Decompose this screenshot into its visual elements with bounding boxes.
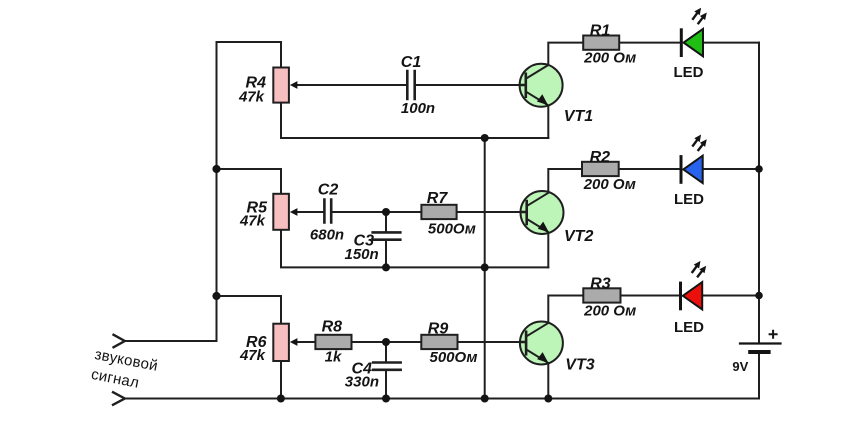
resistor R7 [421,190,475,237]
VT2 emitter arrow [538,222,549,233]
svg-text:680n: 680n [310,226,344,243]
wire R4 bottom to emitter line [281,103,548,138]
node left bus / R6 branch junction [212,292,220,300]
potentiometer R5 [239,194,297,230]
wiper arrow R4 [290,81,298,89]
svg-text:LED: LED [674,319,704,336]
wire channel2 branch [217,169,282,194]
wire C3 branch [385,212,387,267]
node R8-R9 / C4 junction [382,338,390,346]
svg-text:VT3: VT3 [565,357,594,374]
svg-text:R2: R2 [590,149,611,166]
transistor VT1 [520,64,594,126]
resistor R2 [582,149,636,193]
LED3 red triangle [683,282,702,309]
VT2 base bar [521,200,527,226]
LED2 blue triangle [683,156,702,183]
wire R2 to LED2 [619,168,680,170]
wire VT2 collector [548,169,582,192]
svg-text:200 Ом: 200 Ом [583,303,636,320]
wire channel1 top branch [217,42,282,68]
capacitor C3 [344,232,401,263]
resistor R3 [583,276,636,320]
VT3 collector/emitter legs [527,323,549,364]
wire R6 bottom to rail [280,361,282,399]
svg-text:VT2: VT2 [564,228,593,245]
node C3 / channel-2 emitter rail junction [382,263,390,271]
wire emitter ground bus [484,138,486,399]
LED1 green triangle [684,29,703,56]
transistor VT3 [520,322,595,374]
LED blue D2 [674,135,707,209]
wire R1 to LED1 [619,42,680,44]
svg-text:R8: R8 [322,318,343,335]
svg-text:500Ом: 500Ом [430,349,478,366]
wire R3 to LED3 [621,295,681,297]
resistor R1 [583,22,636,66]
battery negative plate [748,350,770,354]
battery plus sign [769,330,778,339]
resistor R9 [421,321,477,366]
svg-text:R9: R9 [428,321,449,338]
svg-text:100n: 100n [401,100,435,117]
node C4 / ground rail junction [382,395,390,403]
transistor VT2 [521,191,594,245]
potentiometer R4 [238,68,297,106]
node LED3 / +9V bus junction [755,292,763,300]
VT3 base bar [520,331,526,356]
C3 plates [371,232,401,239]
LED1 emission arrow b [698,17,703,24]
wire channel3 branch [217,296,282,324]
wire VT1 collector [548,43,583,65]
LED1 emission arrow a [692,13,697,20]
wire battery minus to bottom [758,353,760,399]
wire VT1 emitter [547,106,549,138]
LED red D3 [674,261,706,336]
svg-text:R1: R1 [590,22,611,39]
svg-text:R3: R3 [590,276,611,293]
wire VT3 collector [548,296,583,324]
wire LED1 to right bus [703,42,759,44]
wiper arrow R5 [290,208,298,216]
wire LED3 to right bus [703,295,759,297]
wire R4 wiper to C1 [296,84,407,86]
svg-text:R7: R7 [427,190,449,207]
C2 plates [324,198,331,223]
LED3 emission arrow b [697,270,702,277]
svg-text:47k: 47k [238,88,265,105]
wire bottom rail [125,398,759,400]
wire R6 wiper to R8 [296,341,315,343]
svg-text:47k: 47k [239,347,266,364]
battery positive plate [739,342,782,344]
node ground bus / ground rail junction [481,395,489,403]
wire R7 to VT2 base [457,211,521,213]
wire R5 bottom to emitter line [281,230,548,268]
LED1 cathode bar [680,28,683,57]
wire C1 to VT1 base [415,84,520,86]
wire R9 to VT3 base [458,341,520,343]
VT2 collector/emitter legs [527,192,549,233]
node ground bus / channel-2 emitter rail junction [481,263,489,271]
svg-text:C2: C2 [318,181,339,198]
wire right bus [758,43,760,344]
LED3 cathode bar [679,282,682,311]
svg-text:1k: 1k [325,349,342,366]
svg-text:150n: 150n [344,246,378,263]
node VT3 emitter / ground rail junction [544,395,552,403]
VT3 emitter arrow [537,352,548,363]
svg-text:LED: LED [674,64,704,81]
battery GB1 9V [732,330,781,374]
wire C2 to R7 [331,211,421,213]
wiper arrow R6 [290,338,298,346]
node ground bus / channel-1 emitter rail junction [481,134,489,142]
VT1 collector/emitter legs [526,65,548,106]
node R6 / ground rail junction [277,395,285,403]
input terminal bottom [112,392,125,406]
LED green D1 [674,8,707,82]
wire VT3 emitter [547,365,549,399]
potentiometer R6 [239,324,297,364]
node LED2 / +9V bus junction [755,165,763,173]
svg-text:9V: 9V [732,359,748,374]
VT1 base bar [520,73,526,99]
capacitor C1 [401,54,435,117]
wire VT2 emitter [547,234,549,267]
node C2-R7 / C3 junction [382,208,390,216]
node left bus / R5 branch junction [212,165,220,173]
wire LED2 to right bus [703,168,759,170]
svg-text:47k: 47k [239,213,266,230]
wire input top [125,340,217,342]
svg-text:C1: C1 [401,54,422,71]
VT1 emitter arrow [537,94,548,105]
input terminal top [113,334,125,348]
wire R8 to R9 [352,341,422,343]
LED2 emission arrow b [698,144,703,151]
capacitor C2 [310,181,344,243]
svg-text:200 Ом: 200 Ом [583,176,636,193]
wire R5 wiper to C2 [296,211,324,213]
LED2 cathode bar [680,155,683,184]
LED2 emission arrow a [692,139,697,146]
svg-text:200 Ом: 200 Ом [583,50,636,67]
svg-text:LED: LED [674,191,704,208]
node input label [90,346,160,392]
C1 plates [407,70,414,100]
LED3 emission arrow a [692,266,697,273]
C4 plates [372,363,402,370]
svg-text:500Ом: 500Ом [428,220,476,237]
wire C4 branch [385,342,387,399]
capacitor C4 [345,361,402,391]
wire left bus [216,42,218,341]
svg-text:330n: 330n [345,374,379,391]
resistor R8 [315,318,351,365]
svg-text:VT1: VT1 [564,108,593,125]
